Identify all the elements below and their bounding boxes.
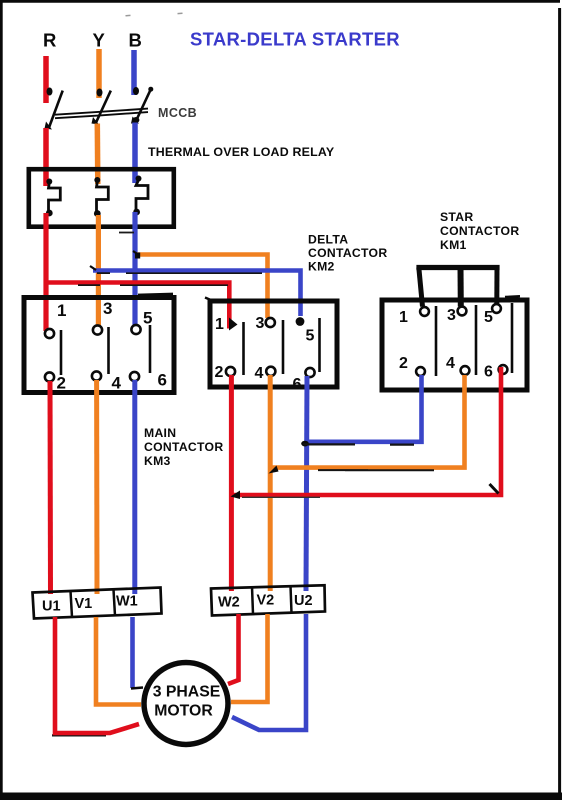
main contactor pin 3 [93,325,102,334]
terminal label U1 [42,599,61,615]
main contactor pin 1 label [57,301,66,320]
star contactor pin 6 label [484,364,493,381]
ink mark under red branch wire [78,284,228,286]
border frame top [0,0,560,3]
main contactor pin 3 label [103,299,112,318]
delta contactor contact bar 3-4 [282,320,285,374]
delta contactor pin 1 label [215,316,224,333]
delta contactor pin 6 [305,368,314,377]
wire blue branch to delta contactor pin 5 [93,271,301,317]
svg-text:5: 5 [143,309,152,328]
wire blue W1 to motor [130,617,135,688]
MCCB label [158,106,197,120]
main contactor pin 6 [130,372,139,381]
wire orange star pin 4 jumper [271,375,465,468]
star contactor contact bar 1-2 [435,306,438,376]
border frame right [558,8,561,796]
svg-text:KM1: KM1 [440,238,467,252]
wire Y relay to main contactor pin 3 [96,215,101,328]
junction red jumper right [490,484,499,494]
border frame bottom bar [0,793,562,800]
star contactor pin 5 label [484,309,493,326]
ink tick at delta box top-left corner [205,298,212,301]
overload element pole 1 [46,179,60,217]
wire orange main pin 4 to V1 [94,380,99,594]
svg-text:U1: U1 [42,599,61,615]
wire blue main pin 6 to W1 [132,380,137,594]
svg-text:CONTACTOR: CONTACTOR [308,246,387,260]
wire red delta pin 2 to W2 [229,375,234,591]
wire orange V1 to motor [96,617,141,705]
main contactor contact bar 3-4 [107,327,110,374]
svg-text:1: 1 [57,301,66,320]
svg-text:3: 3 [103,299,112,318]
svg-text:3 PHASE: 3 PHASE [153,684,221,701]
svg-text:2: 2 [399,355,408,372]
svg-text:W1: W1 [116,594,138,610]
ink dash below relay box [119,232,134,234]
wire R phase supply stub [43,56,49,103]
svg-text:DELTA: DELTA [308,233,348,247]
ink speck above B [178,12,183,14]
supply phase label Y [93,30,106,51]
terminal label V1 [75,596,93,612]
terminal label W2 [218,595,240,611]
main contactor contact bar 1-2 [60,330,63,375]
ink mark under red jumper wire [242,496,320,498]
junction red jumper left [231,491,241,500]
svg-text:V1: V1 [75,596,93,612]
svg-text:1: 1 [399,309,408,326]
wire blue star pin 2 jumper [307,375,422,442]
svg-text:2: 2 [57,374,66,393]
junction tick blue branch start [90,266,96,270]
wire blue U2 to motor [232,614,306,730]
svg-text:B: B [129,30,142,51]
delta contactor pin 3 [266,318,275,327]
motor M1 circle [144,663,228,745]
wire R relay to main contactor pin 1 [43,213,48,331]
svg-text:KM3: KM3 [144,454,171,468]
wire R MCCB to overload relay [43,128,49,186]
wire Y phase supply stub [96,49,102,98]
terminal label U2 [294,593,313,609]
overload element pole 2 [94,177,108,217]
svg-text:Y: Y [93,30,106,51]
star contactor pin 5 [492,304,501,313]
junction tick orange branch start [133,251,139,255]
wire red branch to delta contactor pin 1 [46,283,229,329]
thermal overload relay label [148,145,335,159]
ink bump on star box top-right [505,295,520,298]
star contactor pin 1 [420,307,429,316]
wire B phase supply stub [131,50,137,95]
wire B relay to main contactor pin 5 [132,212,137,327]
wire red U1 to motor [55,617,139,733]
delta contactor pin 2 label [215,364,224,381]
delta contactor contact bar 5-6 [318,318,321,372]
MCCB switch pole 2 [92,89,111,125]
svg-text:5: 5 [306,328,315,345]
junction tick blue W1 end [131,688,143,689]
main contactor pin 5 [131,325,140,334]
svg-text:3: 3 [256,315,265,332]
delta contactor KM2 box [210,301,337,387]
delta contactor pin 4 [266,367,275,376]
wire red main pin 2 to U1 [48,381,54,594]
delta contactor pin 5 label [306,328,315,345]
main contactor contact bar 5-6 [149,325,152,373]
svg-text:THERMAL OVER LOAD RELAY: THERMAL OVER LOAD RELAY [148,145,335,159]
ink mark at orange branch start [135,253,140,259]
MCCB trip bar (double line) [55,109,148,119]
delta contactor KM2 label [308,233,387,274]
supply phase label B [129,30,142,51]
star contactor KM1 label [440,210,519,252]
wire B MCCB to overload relay [132,123,138,184]
svg-text:V2: V2 [257,593,275,609]
border frame left [0,0,3,796]
wire orange delta pin 4 to V2 [268,375,273,591]
svg-text:W2: W2 [218,595,240,611]
main contactor pin 6 label [158,371,167,390]
ink mark under red motor wire [52,734,106,736]
MCCB switch pole 1 [45,88,63,130]
wire orange branch to delta contactor pin 3 [136,255,268,319]
ink wobble on main contactor box top [138,294,173,295]
svg-text:6: 6 [484,364,493,381]
main contactor pin 1 [45,329,54,338]
svg-text:4: 4 [112,374,122,393]
star contactor pin 4 [461,366,470,375]
svg-text:4: 4 [446,355,455,372]
terminal label V2 [257,593,275,609]
main contactor pin 4 [92,371,101,380]
svg-text:6: 6 [293,376,302,393]
svg-text:5: 5 [484,309,493,326]
svg-text:R: R [43,30,56,51]
svg-text:6: 6 [158,371,167,390]
thermal overload relay box [29,169,174,227]
delta contactor pin 4 label [255,365,264,382]
svg-text:2: 2 [215,364,224,381]
star contactor contact bar 5-6 [511,303,514,373]
svg-text:4: 4 [255,365,264,382]
delta contactor pin 6 label [293,376,302,393]
ink speck above Y [126,14,131,16]
wire red W2 to motor [228,614,239,684]
star contactor pin 4 label [446,355,455,372]
star contactor pin 3 label [447,307,456,324]
delta contactor pin 1 [229,318,238,331]
main contactor KM3 label [144,426,223,468]
main contactor pin 2 label [57,374,66,393]
delta contactor contact bar 1-2 [242,322,245,375]
star contactor pin 2 label [399,355,408,372]
main contactor pin 5 label [143,309,152,328]
star contactor pin 6 [499,365,508,374]
junction blue jumper [301,441,309,447]
svg-text:MCCB: MCCB [158,106,197,120]
svg-text:1: 1 [215,316,224,333]
title STAR-DELTA STARTER [190,29,400,50]
star contactor pin 3 [458,307,467,316]
svg-text:CONTACTOR: CONTACTOR [144,440,223,454]
star contactor pin 2 [416,367,425,376]
terminal block U1 V1 W1 [33,588,162,619]
ink mark under blue jumper wire [303,443,414,445]
ink mark under blue branch wire [97,272,262,274]
ink mark under orange jumper wire [318,469,434,471]
motor label [153,684,221,720]
star contactor contact bar 3-4 [475,305,478,375]
wire blue delta pin 6 to U2 [306,376,307,591]
overload element pole 3 [133,176,148,216]
svg-text:STAR-DELTA STARTER: STAR-DELTA STARTER [190,29,400,50]
wire red star pin 6 jumper [233,367,501,495]
svg-text:MAIN: MAIN [144,426,176,440]
svg-text:KM2: KM2 [308,260,335,274]
delta contactor pin 3 label [256,315,265,332]
terminal block W2 V2 U2 [211,585,325,615]
svg-text:U2: U2 [294,593,313,609]
wire Y MCCB to overload relay [95,124,101,185]
svg-text:STAR: STAR [440,210,473,224]
main contactor KM3 box [24,298,174,393]
svg-text:MOTOR: MOTOR [154,702,213,719]
wire orange V2 to motor [231,614,268,702]
svg-text:3: 3 [447,307,456,324]
star contactor KM1 box [382,300,527,390]
main contactor pin 4 label [112,374,122,393]
supply phase label R [43,30,56,51]
terminal label W1 [116,594,138,610]
junction orange jumper [269,466,279,474]
star contactor shorting bar [416,268,499,307]
star contactor pin 1 label [399,309,408,326]
delta contactor pin 2 [226,367,235,376]
MCCB switch pole 3 [131,87,153,124]
delta contactor pin 5 [296,317,305,326]
main contactor pin 2 [45,372,54,381]
svg-text:CONTACTOR: CONTACTOR [440,224,519,238]
